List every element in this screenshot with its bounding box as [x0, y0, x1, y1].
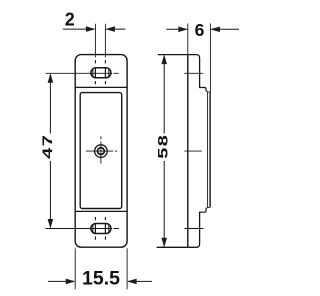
svg-text:6: 6: [195, 20, 205, 40]
svg-text:2: 2: [65, 10, 75, 30]
svg-text:15.5: 15.5: [82, 267, 120, 289]
svg-text:58: 58: [154, 134, 170, 159]
svg-text:47: 47: [39, 134, 55, 159]
